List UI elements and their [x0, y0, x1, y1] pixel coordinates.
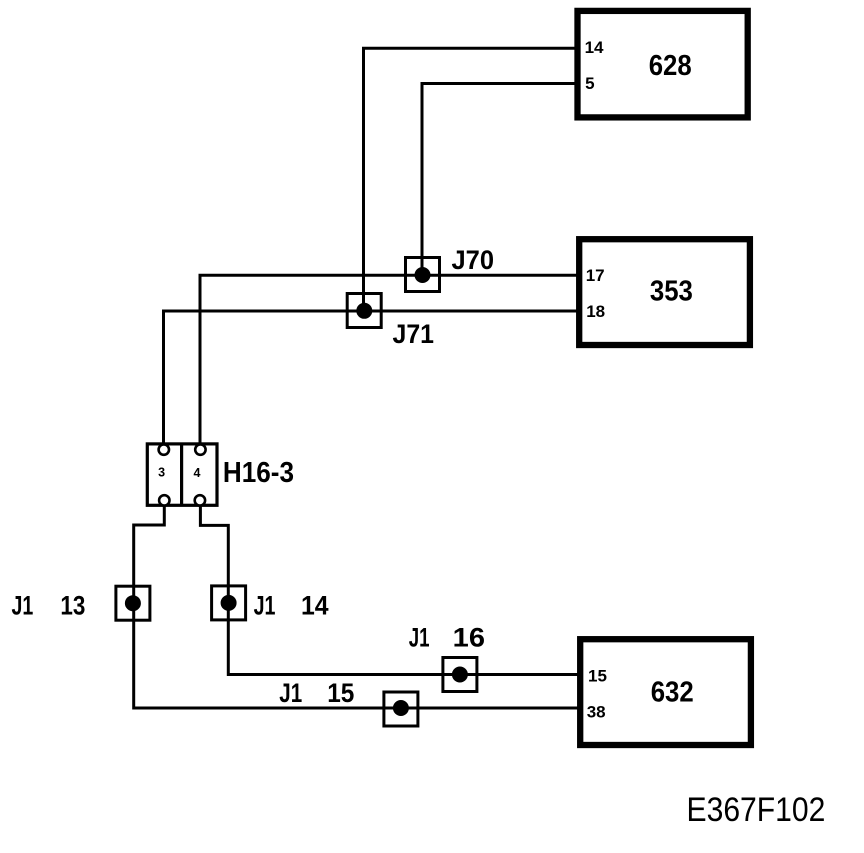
svg-text:J1: J1 — [12, 590, 34, 620]
svg-text:15: 15 — [588, 667, 607, 686]
svg-text:15: 15 — [327, 678, 354, 708]
svg-text:16: 16 — [453, 623, 485, 653]
svg-text:J70: J70 — [452, 245, 495, 275]
svg-text:J1: J1 — [279, 678, 302, 708]
svg-text:38: 38 — [587, 702, 606, 721]
svg-text:J71: J71 — [393, 319, 435, 349]
svg-text:H16-3: H16-3 — [223, 457, 294, 489]
svg-text:628: 628 — [649, 50, 692, 82]
svg-text:14: 14 — [585, 38, 604, 57]
svg-text:5: 5 — [585, 74, 594, 93]
svg-text:J1: J1 — [254, 591, 276, 621]
svg-text:14: 14 — [301, 591, 329, 621]
svg-text:4: 4 — [194, 466, 201, 480]
svg-text:3: 3 — [158, 466, 165, 480]
svg-text:632: 632 — [651, 676, 694, 708]
svg-text:E367F102: E367F102 — [687, 791, 826, 829]
svg-text:13: 13 — [60, 590, 85, 620]
svg-text:353: 353 — [650, 276, 693, 308]
svg-text:18: 18 — [586, 302, 605, 321]
svg-text:J1: J1 — [409, 623, 430, 653]
svg-text:17: 17 — [586, 266, 605, 285]
